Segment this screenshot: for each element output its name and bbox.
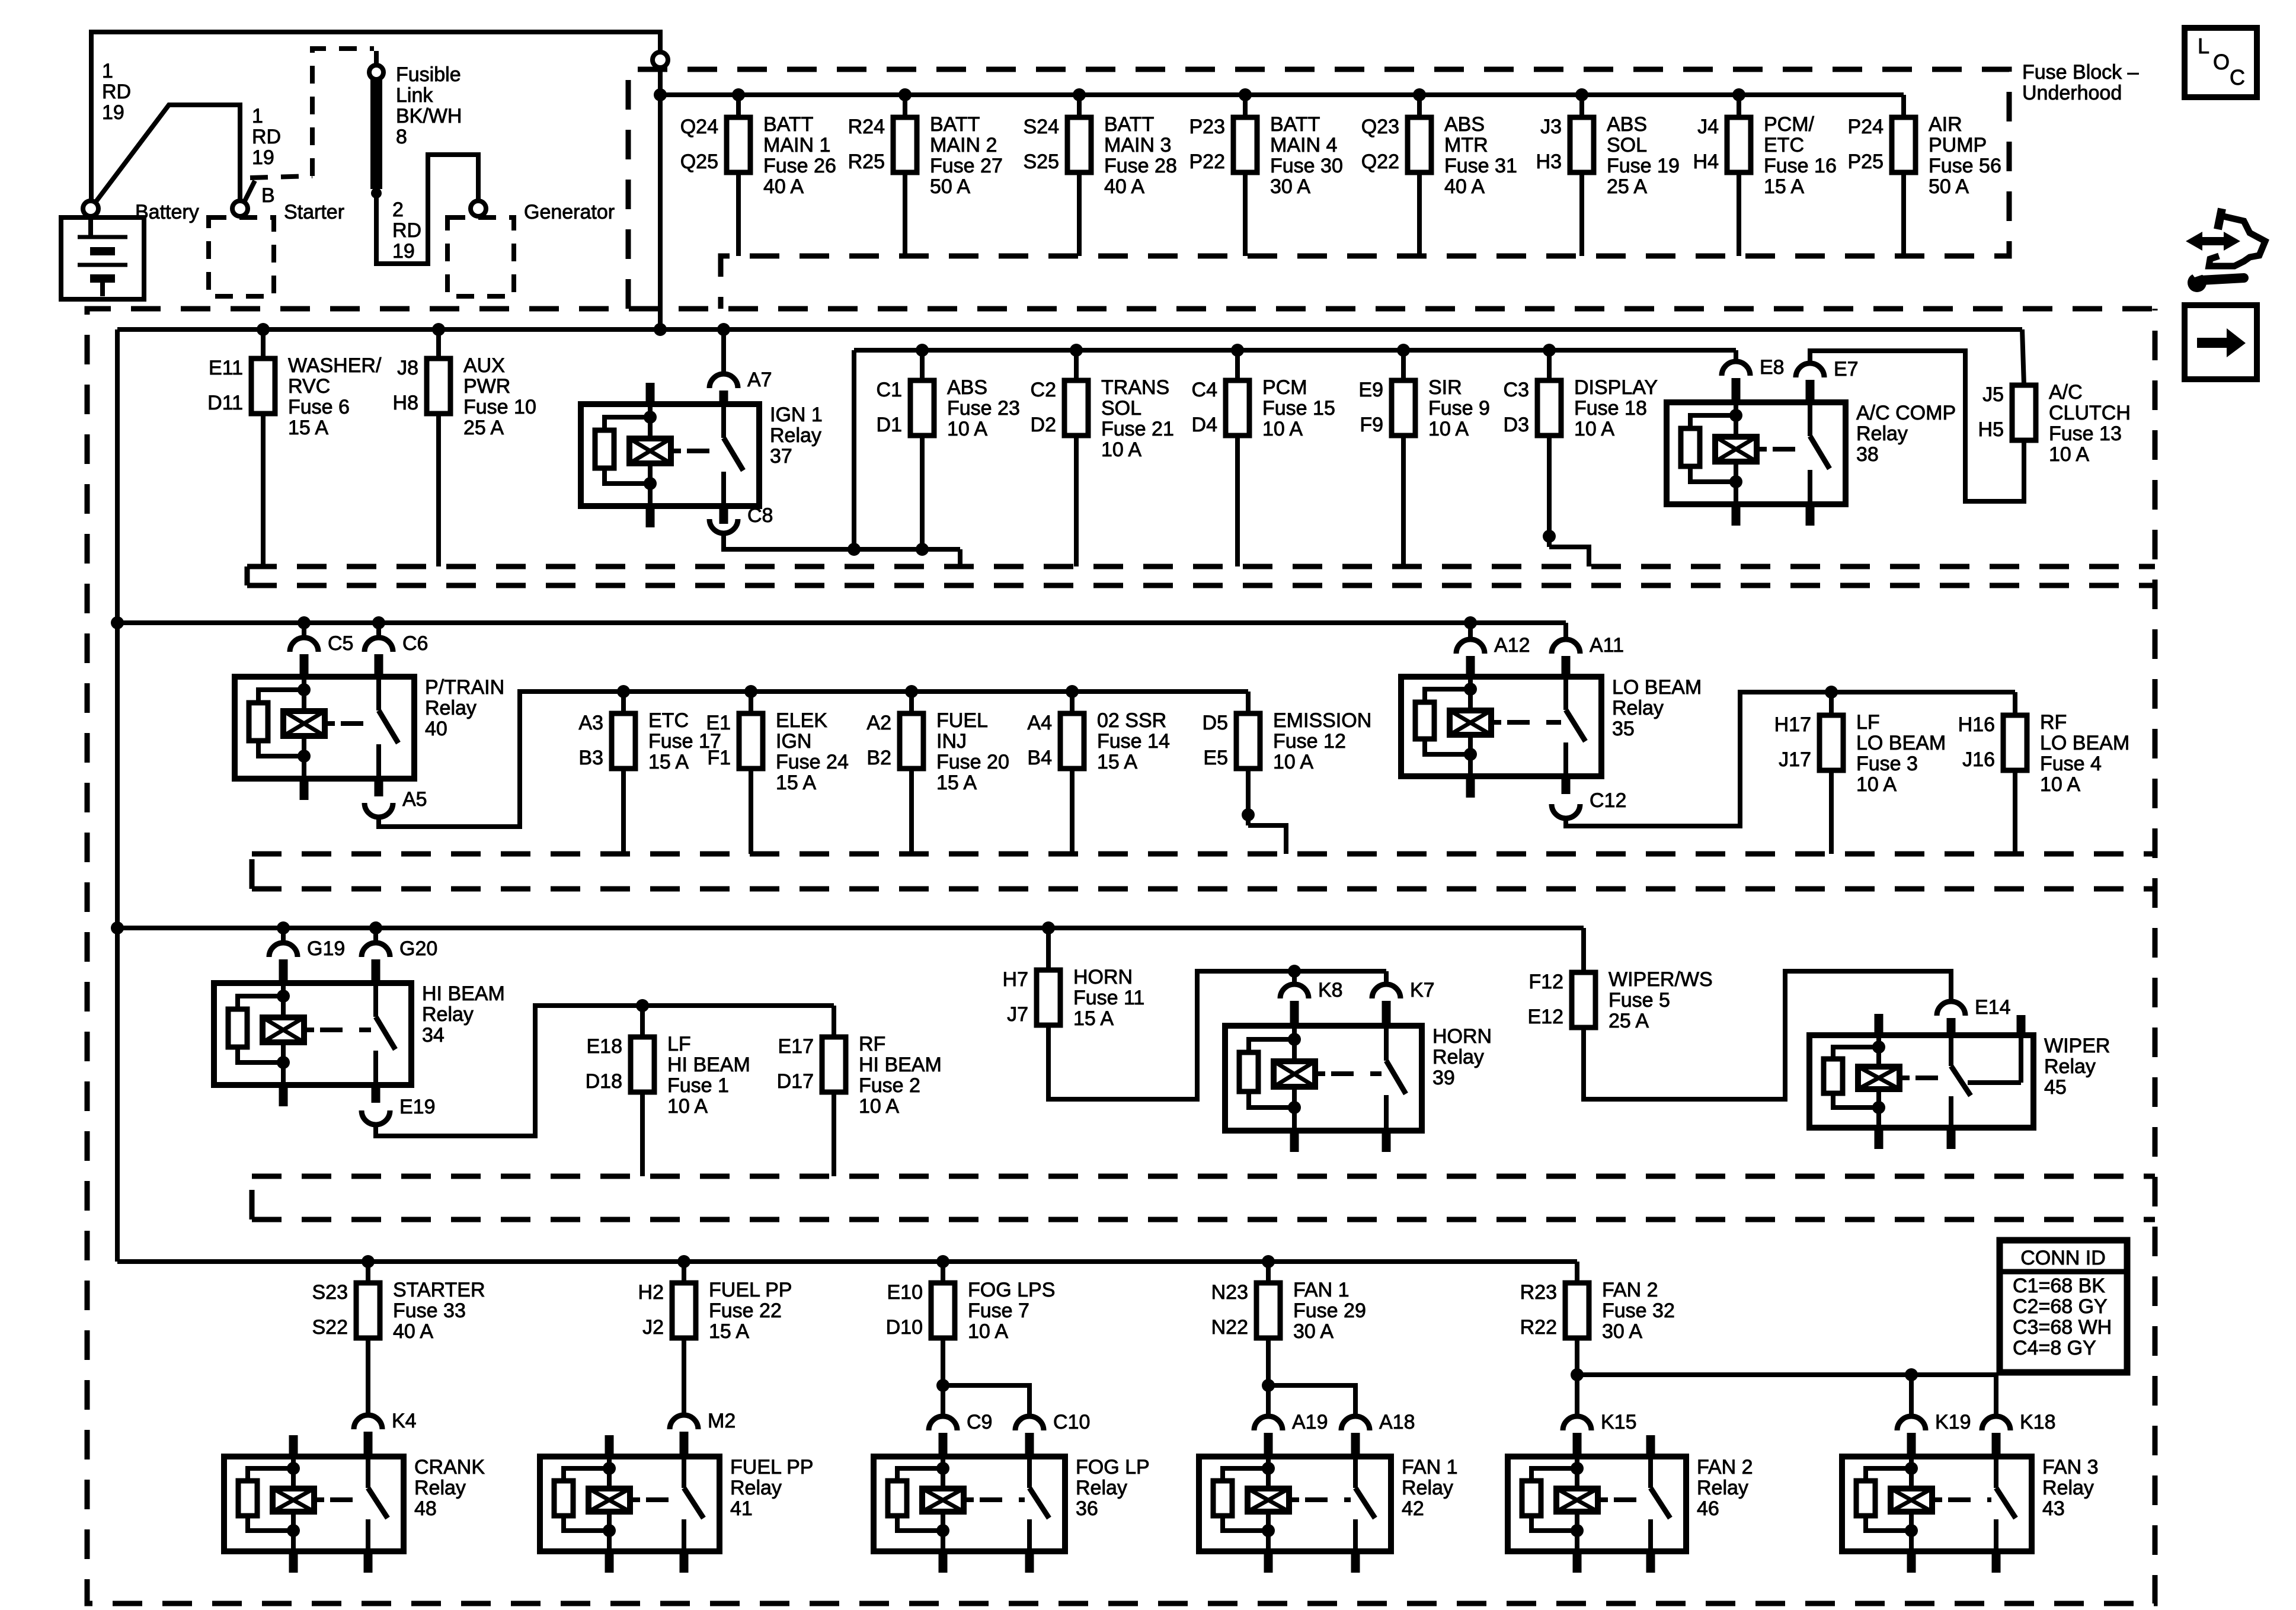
wire [1246,692,1251,713]
svg-text:Fuse 30: Fuse 30 [1270,155,1343,177]
svg-text:C4=8 GY: C4=8 GY [2013,1337,2096,1359]
svg-text:J4: J4 [1697,116,1719,138]
fusible link dashed routing [312,49,374,176]
svg-text:P25: P25 [1848,151,1884,173]
svg-text:K4: K4 [392,1410,417,1432]
svg-text:HI BEAM: HI BEAM [422,982,505,1005]
fuse Fuse 18 DISPLAY [1504,376,1658,440]
wire [1070,692,1075,713]
svg-text:H3: H3 [1536,151,1562,173]
wire [1401,350,1406,380]
wire [373,928,378,943]
svg-text:E8: E8 [1760,356,1785,379]
fuse Fuse 14 02 SSR [1027,709,1169,773]
junction bus1 [1073,88,1086,101]
CONN ID table [2000,1240,2127,1372]
fuse Fuse 28 BATT MAIN 3 [1024,113,1177,198]
relay FAN 2 Relay 46 [1508,1435,1753,1573]
fuse Fuse 16 PCM/ETC [1693,113,1837,198]
svg-text:Fuse 20: Fuse 20 [936,751,1009,773]
wire [1292,971,1297,984]
svg-text:PCM: PCM [1262,376,1307,399]
svg-text:FOG LPS: FOG LPS [968,1279,1055,1301]
svg-text:G20: G20 [399,937,437,960]
svg-text:Fuse 7: Fuse 7 [968,1299,1029,1322]
relay FAN 3 Relay 43 [1842,1456,2098,1573]
svg-text:AUX: AUX [463,354,505,377]
wire [436,414,441,566]
wire [1243,172,1248,256]
svg-text:SIR: SIR [1428,376,1462,399]
svg-text:30 A: 30 A [1293,1320,1334,1343]
wire [1246,769,1251,825]
junction [369,921,382,934]
svg-text:Fuse 28: Fuse 28 [1104,155,1177,177]
junction [1571,1368,1584,1381]
fuse Fuse 56 AIR PUMP [1848,113,2001,198]
svg-text:C1: C1 [877,379,902,401]
separator dashed row4/row5 lower [250,1176,255,1219]
svg-text:D10: D10 [886,1316,923,1339]
svg-text:D11: D11 [207,392,243,414]
fuse Fuse 32 FAN 2 [1520,1279,1675,1343]
svg-text:J7: J7 [1007,1003,1028,1026]
svg-text:S22: S22 [312,1316,348,1339]
svg-text:1: 1 [252,105,263,127]
junction trunk/bus3 [111,616,124,629]
svg-text:P/TRAIN: P/TRAIN [425,676,504,699]
svg-text:A7: A7 [747,369,772,391]
svg-text:15 A: 15 A [1764,175,1804,198]
wire [721,329,726,373]
svg-text:D17: D17 [777,1070,814,1093]
svg-text:10 A: 10 A [1428,418,1469,440]
relay LO BEAM Relay 35 [1401,676,1702,798]
svg-text:25 A: 25 A [1607,175,1647,198]
svg-text:FAN 3: FAN 3 [2042,1456,2098,1478]
separator dashed row3/row4 lower [250,854,255,889]
fuse Fuse 2 RF HI BEAM [777,1033,942,1118]
connector A18 [1341,1411,1415,1433]
svg-text:25 A: 25 A [1609,1010,1649,1032]
connector C10 [1015,1411,1090,1433]
svg-text:IGN 1: IGN 1 [770,404,823,426]
svg-text:Relay: Relay [414,1477,466,1499]
svg-text:FAN 1: FAN 1 [1293,1279,1349,1301]
wire [366,1262,370,1283]
relay WIPER Relay 45 [1809,1014,2110,1149]
wire fan2 fuse output rail [1575,1338,1579,1416]
svg-text:ETC: ETC [648,709,689,732]
svg-text:LF: LF [1856,711,1880,734]
fuse Fuse 29 FAN 1 [1211,1279,1366,1343]
svg-text:Fuse Block –: Fuse Block – [2022,61,2139,84]
LOC icon [2185,28,2257,97]
relay FOG LP Relay 36 [874,1456,1150,1573]
junction [1905,1368,1918,1381]
wire [1384,971,1389,984]
svg-text:D2: D2 [1031,414,1056,436]
svg-text:C8: C8 [747,504,773,527]
arrow icon [2185,305,2257,379]
svg-text:Battery: Battery [135,201,199,223]
svg-text:ABS: ABS [1607,113,1647,136]
svg-text:ABS: ABS [947,376,987,399]
junction [1042,921,1055,934]
svg-text:R23: R23 [1520,1281,1557,1304]
svg-text:35: 35 [1612,718,1635,740]
battery [61,201,199,299]
svg-text:Relay: Relay [770,424,821,447]
svg-text:CONN ID: CONN ID [2020,1247,2106,1269]
wire [941,1262,945,1283]
fuse Fuse 20 FUEL INJ [866,709,1009,794]
svg-text:Fuse 2: Fuse 2 [859,1074,920,1097]
svg-text:LO BEAM: LO BEAM [2040,732,2129,754]
svg-text:02 SSR: 02 SSR [1097,709,1166,732]
svg-text:LF: LF [667,1033,691,1055]
svg-text:E12: E12 [1528,1006,1564,1028]
connector A7 [709,369,772,391]
svg-text:Relay: Relay [730,1477,782,1499]
svg-text:J2: J2 [642,1316,664,1339]
svg-text:10 A: 10 A [859,1095,899,1118]
svg-text:A19: A19 [1292,1411,1328,1433]
wire starter B to dashed [250,176,312,178]
svg-text:P22: P22 [1189,151,1226,173]
junction bus1/feed [654,88,667,101]
junction [936,1379,949,1392]
wire [1547,350,1552,380]
svg-text:E11: E11 [209,357,243,379]
svg-text:Fuse 9: Fuse 9 [1428,397,1490,420]
svg-text:D4: D4 [1192,414,1217,436]
wire riser to row2 sub-bus [852,350,856,549]
svg-text:J16: J16 [1962,748,1995,771]
svg-text:10 A: 10 A [667,1095,708,1118]
svg-text:MAIN 4: MAIN 4 [1270,134,1337,156]
svg-text:RF: RF [2040,711,2067,734]
svg-text:ETC: ETC [1764,134,1804,156]
junction [677,1255,690,1268]
svg-text:J5: J5 [1982,383,2004,406]
svg-text:34: 34 [422,1024,445,1046]
wire [302,623,306,638]
junction [372,616,385,629]
wire to K19 [1909,1375,1914,1416]
wire C12 output to LF/RF lo beam sub-bus [1566,692,2015,826]
wire jog to boundary [958,549,962,566]
svg-text:Fuse 21: Fuse 21 [1101,418,1174,440]
connector E14 [1937,996,2011,1019]
svg-text:Relay: Relay [1402,1477,1453,1499]
bus row5 [117,1259,1577,1264]
connector K15 [1563,1411,1637,1433]
svg-text:Fuse 29: Fuse 29 [1293,1299,1366,1322]
svg-text:K19: K19 [1935,1411,1971,1433]
svg-text:B3: B3 [578,747,603,769]
svg-text:C6: C6 [402,632,428,655]
connector G20 [362,937,437,960]
svg-text:H16: H16 [1958,713,1995,736]
fuse Fuse 11 HORN [1003,966,1145,1030]
fuse Fuse 23 ABS [877,376,1020,440]
wire [1074,436,1079,566]
fuse Fuse 7 FOG LPS [886,1279,1056,1343]
fuse Fuse 27 BATT MAIN 2 [848,113,1003,198]
connector A19 [1254,1411,1328,1433]
wire [1074,350,1079,380]
wire [682,1338,686,1415]
generator [447,201,615,296]
svg-text:WIPER: WIPER [2044,1035,2110,1057]
svg-text:46: 46 [1697,1497,1719,1520]
connector C12 [1552,789,1626,818]
connector C5 [290,632,353,655]
svg-text:FAN 2: FAN 2 [1602,1279,1658,1301]
junction trunk/bus4 [111,921,124,934]
svg-text:D1: D1 [877,414,902,436]
svg-text:41: 41 [730,1497,753,1520]
svg-text:BATT: BATT [1104,113,1154,136]
svg-text:S24: S24 [1024,116,1060,138]
junction bus1 [898,88,912,101]
wire [376,623,381,638]
wire main vertical feed to fuse block [658,67,663,329]
wire [366,1338,370,1415]
junction bus1 [1239,88,1252,101]
svg-text:D5: D5 [1203,712,1228,734]
starter [209,181,344,296]
svg-text:A/C COMP: A/C COMP [1856,402,1956,424]
svg-text:FAN 1: FAN 1 [1402,1456,1457,1478]
svg-text:H7: H7 [1003,968,1028,991]
node battery splice circle [653,52,668,68]
fuse Fuse 15 PCM [1192,376,1335,440]
wire C8 output [724,532,960,549]
wire [1248,825,1286,854]
bus row4 [117,926,1584,930]
svg-text:INJ: INJ [936,730,967,753]
svg-text:SOL: SOL [1101,397,1141,420]
svg-text:K8: K8 [1318,979,1343,1001]
fuse Fuse 4 RF LO BEAM [1958,711,2130,796]
junction sub-bus row2 [1397,344,1410,357]
wire A5 output to row3 sub-bus [379,692,1248,827]
bus row3 [117,620,1566,625]
wire E7 feed [1810,351,2024,501]
sub-bus row2 [854,348,1736,353]
wire [436,329,441,359]
wire [640,1092,645,1176]
separator dashed row2/row3 lower [245,566,250,585]
svg-text:C2: C2 [1031,379,1056,401]
connector E7 [1796,358,1859,380]
relay CRANK Relay 48 [224,1435,485,1573]
fuse Fuse 1 LF HI BEAM [586,1033,750,1118]
svg-text:36: 36 [1076,1497,1098,1520]
bus row2 [117,327,2022,332]
svg-text:Relay: Relay [1856,422,1908,445]
wire bus2 to A/C CLUTCH fuse [2022,329,2024,385]
wire bus4 to wiper fuse [1581,928,1586,972]
svg-text:Fuse 6: Fuse 6 [288,396,350,418]
wire [640,1006,645,1037]
junction [717,323,730,336]
connector K18 [1982,1411,2056,1433]
junction [432,323,445,336]
wire [1829,692,1834,715]
wire [1401,436,1406,566]
svg-text:K15: K15 [1601,1411,1637,1433]
svg-text:15 A: 15 A [1097,751,1137,773]
wire [1549,547,1589,566]
connector A12 [1456,634,1530,657]
fuse Fuse 10 AUX PWR [393,354,536,439]
wire [682,1262,686,1283]
svg-text:B4: B4 [1027,747,1052,769]
svg-text:F1: F1 [707,747,731,769]
junction [1262,1255,1275,1268]
svg-text:10 A: 10 A [1856,773,1897,796]
wire [1579,95,1584,117]
svg-text:WIPER/WS: WIPER/WS [1609,968,1713,991]
svg-text:Q25: Q25 [680,151,718,173]
svg-text:8: 8 [396,126,407,148]
svg-text:ABS: ABS [1444,113,1485,136]
svg-text:FAN 2: FAN 2 [1697,1456,1753,1478]
connector G19 [269,937,345,960]
svg-text:Fuse 31: Fuse 31 [1444,155,1517,177]
svg-text:E19: E19 [399,1096,436,1118]
svg-text:P23: P23 [1189,116,1226,138]
relay IGN 1 Relay 37 [581,383,823,527]
wire wiper fuse output loop [1584,971,1951,1099]
svg-text:40 A: 40 A [1104,175,1144,198]
svg-text:P24: P24 [1848,116,1884,138]
outer fuse block dashed boundary [87,309,2155,1603]
connector E8 [1722,356,1785,379]
svg-text:A/C: A/C [2049,381,2083,404]
wire [2013,692,2017,715]
svg-text:38: 38 [1856,443,1879,466]
junction sub-bus row2 [1070,344,1083,357]
relay FAN 1 Relay 42 [1199,1456,1457,1573]
svg-text:B: B [261,184,275,207]
svg-text:E5: E5 [1203,747,1228,769]
connector A5 [364,788,427,817]
svg-text:A12: A12 [1494,634,1530,657]
wire [1547,436,1552,547]
svg-text:A18: A18 [1379,1411,1415,1433]
connector A11 [1552,634,1624,657]
junction bus1 [1732,88,1745,101]
junction [1262,1379,1275,1392]
fuse Fuse 24 ELEK IGN [706,709,848,794]
svg-text:Fuse 5: Fuse 5 [1609,989,1670,1012]
wire [736,95,741,117]
svg-text:40 A: 40 A [393,1320,433,1343]
wire battery to starter jumper [91,105,240,209]
svg-text:H8: H8 [393,392,418,414]
svg-text:MAIN 3: MAIN 3 [1104,134,1171,156]
svg-text:TRANS: TRANS [1101,376,1169,399]
svg-text:RD: RD [252,126,281,148]
wire [1046,928,1051,970]
svg-text:C2=68 GY: C2=68 GY [2013,1295,2108,1318]
svg-text:A2: A2 [866,712,891,734]
svg-text:C4: C4 [1192,379,1217,401]
svg-text:30 A: 30 A [1602,1320,1642,1343]
svg-text:B2: B2 [866,747,891,769]
svg-text:Q22: Q22 [1361,151,1399,173]
junction bus1 [732,88,745,101]
svg-text:Relay: Relay [1432,1046,1484,1068]
wire fan1 fuse output split [1266,1338,1271,1416]
svg-text:S25: S25 [1024,151,1060,173]
wire [1243,95,1248,117]
svg-text:FUEL PP: FUEL PP [709,1279,792,1301]
wire [920,350,925,380]
junction bus1 [1413,88,1426,101]
svg-text:Fusible: Fusible [396,63,461,86]
svg-text:Generator: Generator [524,201,615,223]
svg-text:C: C [2230,65,2245,89]
wire fog fuse output split [941,1338,945,1416]
wire [903,95,907,117]
svg-text:Relay: Relay [1612,697,1664,719]
junction [298,616,311,629]
fuse Fuse 17 ETC [578,709,721,773]
wire [261,329,266,359]
svg-text:E10: E10 [887,1281,923,1304]
svg-text:E17: E17 [778,1035,814,1058]
svg-text:Fuse 4: Fuse 4 [2040,753,2102,775]
svg-text:EMISSION: EMISSION [1273,709,1371,732]
svg-text:S23: S23 [312,1281,348,1304]
bus row1 [660,92,1904,97]
svg-text:43: 43 [2042,1497,2065,1520]
svg-text:Fuse 10: Fuse 10 [463,396,536,418]
junction sub-bus row3 [1066,685,1079,698]
svg-text:C12: C12 [1590,789,1626,812]
svg-text:K7: K7 [1410,979,1435,1001]
svg-text:25 A: 25 A [463,417,504,439]
junction [1825,686,1838,699]
fusible link BK/WH 8 [369,51,462,199]
wire bus5 to fan2 fuse [1575,1262,1579,1283]
svg-text:Fuse 3: Fuse 3 [1856,753,1918,775]
svg-text:Fuse 18: Fuse 18 [1574,397,1647,420]
wire [1468,623,1473,639]
svg-text:37: 37 [770,445,792,468]
wire rail to fan3 [1577,1375,1996,1416]
wire [261,414,266,566]
svg-text:ELEK: ELEK [776,709,827,732]
svg-text:MAIN 1: MAIN 1 [763,134,830,156]
svg-text:D18: D18 [586,1070,622,1093]
svg-text:15 A: 15 A [709,1320,749,1343]
svg-text:J8: J8 [397,357,418,379]
fuse Fuse 26 BATT MAIN 1 [680,113,836,198]
svg-text:E14: E14 [1975,996,2011,1019]
svg-text:10 A: 10 A [1101,438,1141,461]
svg-text:15 A: 15 A [648,751,689,773]
svg-text:Fuse 19: Fuse 19 [1607,155,1680,177]
fuse Fuse 9 SIR [1358,376,1490,440]
svg-text:10 A: 10 A [947,418,987,440]
svg-text:FUEL: FUEL [936,709,988,732]
